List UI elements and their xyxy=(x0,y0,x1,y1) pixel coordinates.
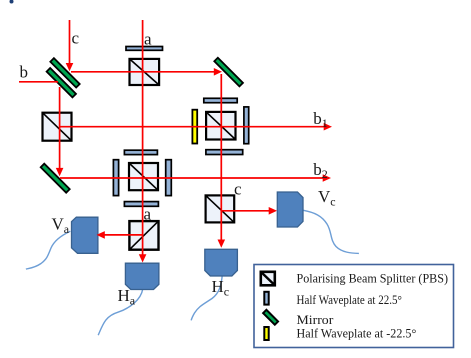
legend mirror icon xyxy=(263,310,278,325)
wire a beam (vertical) xyxy=(142,20,144,255)
PBS U3 (b1 output) xyxy=(206,112,235,140)
wire input b (horizontal) xyxy=(19,81,58,83)
detector Va xyxy=(72,217,98,253)
mirror M1 upper bar (top-left double mirror) xyxy=(50,58,79,87)
wire squiggle from detector Ha xyxy=(98,289,143,335)
PBS U6 (a measurement) xyxy=(129,221,158,250)
half waveplate W8 right of PBS4 (central cluster right) xyxy=(166,160,172,196)
mirror M2 (top-right) xyxy=(214,58,243,87)
half waveplate W4 below PBS3 (b1 cluster bottom) xyxy=(206,150,243,155)
svg-text:b: b xyxy=(20,63,29,82)
detector Ha xyxy=(125,263,158,289)
half waveplate W6 above PBS4 (central cluster top) xyxy=(124,150,157,154)
half waveplate W1 above PBS1 (input a) xyxy=(126,47,163,51)
svg-text:a: a xyxy=(144,205,152,224)
detector Hc xyxy=(205,249,238,276)
wire c reflected toward mirror M2 xyxy=(71,71,215,73)
half waveplate W2 above PBS3 (b1 cluster top) xyxy=(204,98,237,102)
wire squiggle from detector Hc xyxy=(191,274,222,321)
svg-text:a: a xyxy=(144,30,152,49)
wire c beam down from mirror M2 xyxy=(220,74,222,240)
arrowhead a into detector Ha xyxy=(139,254,147,262)
wire b1 beam (horizontal) xyxy=(60,126,324,128)
svg-text:c: c xyxy=(234,180,242,199)
legend half waveplate icon (blue) xyxy=(264,292,268,305)
half waveplate W5 at -22.5 (yellow, left of PBS3) xyxy=(192,110,197,144)
arrowhead b2 output xyxy=(323,174,331,182)
wire squiggle from detector Va xyxy=(26,231,70,269)
arrowhead b1 output xyxy=(324,123,332,131)
arrowhead c into detector Hc xyxy=(218,240,226,248)
wire b reflected down xyxy=(59,87,61,169)
legend box xyxy=(254,265,454,348)
half waveplate W7 left of PBS4 (central cluster left) xyxy=(113,160,118,196)
svg-text:c: c xyxy=(72,29,80,48)
PBS U1 (input a, top) xyxy=(130,59,160,85)
bullet dot xyxy=(10,0,14,4)
wire squiggle from detector Vc xyxy=(303,210,359,253)
svg-text:Polarising Beam Splitter (PBS): Polarising Beam Splitter (PBS) xyxy=(297,271,449,286)
half waveplate W3 right of PBS3 (b1 cluster right) xyxy=(244,107,249,144)
arrowhead into detector Vc xyxy=(269,207,277,215)
legend PBS icon xyxy=(261,272,275,286)
wire b2 beam (horizontal) xyxy=(60,177,323,179)
wire c to detector Vc xyxy=(221,210,269,212)
detector Vc xyxy=(277,192,303,227)
half waveplate W9 below PBS4 (central cluster bottom) xyxy=(124,202,158,207)
arrowhead b onto mirror M3 xyxy=(56,168,64,176)
wire input c (vertical) xyxy=(69,20,71,65)
mirror M1 lower bar (top-left double mirror) xyxy=(47,68,76,97)
PBS U4 (central, b2 output) xyxy=(129,163,158,190)
arrowhead c onto mirror M1 xyxy=(66,63,74,71)
wire a to detector Va xyxy=(105,234,143,236)
legend half waveplate icon (yellow) xyxy=(264,327,268,340)
arrowhead onto mirror M2 xyxy=(214,68,222,76)
svg-text:Half Waveplate at -22.5°: Half Waveplate at -22.5° xyxy=(297,326,417,341)
PBS U5 (c measurement) xyxy=(206,195,235,222)
PBS U2 (left, input b) xyxy=(43,113,72,141)
arrowhead into detector Va xyxy=(97,231,105,239)
mirror M3 (lower-left) xyxy=(41,164,70,193)
svg-text:Half Waveplate at 22.5°: Half Waveplate at 22.5° xyxy=(297,292,402,307)
